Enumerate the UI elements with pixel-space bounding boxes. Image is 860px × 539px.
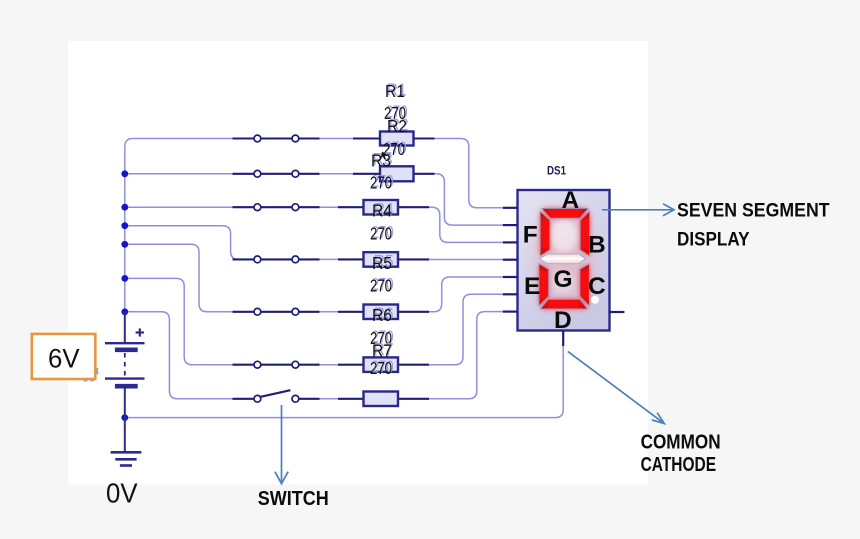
cursor mark (381, 152, 388, 160)
segment B lit (580, 211, 589, 256)
svg-text:270: 270 (370, 224, 392, 244)
segment A lit (542, 208, 588, 218)
display pin stub right (610, 311, 625, 313)
switch S6 (233, 361, 320, 368)
switch S2 (233, 170, 320, 177)
svg-text:C: C (588, 273, 606, 300)
label R2 (383, 114, 409, 159)
label R4 (370, 199, 394, 244)
resistor R1 (353, 132, 435, 146)
svg-text:F: F (523, 221, 538, 248)
label R5 (370, 251, 394, 295)
svg-text:6V: 6V (48, 344, 80, 374)
annotation SEVEN SEGMENT DISPLAY (677, 201, 830, 251)
wire row6 (192, 294, 503, 364)
wire row5 (207, 277, 503, 312)
svg-text:D: D (554, 307, 572, 334)
segment E lit (539, 264, 549, 306)
decimal point (591, 296, 600, 305)
junction dot row6 feed (121, 275, 128, 282)
arrow to common cathode (568, 351, 665, 423)
wire row4 (233, 258, 503, 260)
display DS1 box (518, 190, 610, 331)
svg-text:R1: R1 (385, 81, 405, 101)
wire bus vertical (125, 139, 133, 312)
svg-text:0V: 0V (106, 477, 138, 508)
segment C lit (580, 264, 589, 306)
wire row5 feed (125, 244, 207, 311)
wire row7 feed (125, 312, 178, 399)
resistor R7 (338, 392, 429, 407)
digit inner bloom lower (552, 270, 574, 294)
arrow to seven segment display (602, 204, 674, 216)
resistor R4 (338, 252, 429, 267)
ground (111, 452, 142, 465)
svg-text:CATHODE: CATHODE (641, 454, 717, 476)
svg-text:DISPLAY: DISPLAY (677, 229, 750, 250)
svg-text:SEVEN SEGMENT: SEVEN SEGMENT (677, 201, 830, 222)
junction dot row2 (121, 170, 128, 177)
resistor R3 (338, 200, 429, 215)
annotation COMMON CATHODE (641, 432, 721, 476)
svg-text:270: 270 (370, 358, 392, 378)
svg-text:B: B (588, 232, 606, 259)
label R6 (370, 303, 394, 348)
switch S7 open (233, 390, 320, 402)
wire common cathode return (125, 346, 563, 418)
switch S1 (233, 135, 320, 142)
junction dot row5 feed (121, 241, 128, 248)
wire row4 feed (125, 226, 239, 260)
resistor R2 (353, 166, 435, 181)
switch S4 (233, 256, 320, 263)
6V label box (32, 334, 96, 379)
battery label remnant (84, 368, 98, 380)
svg-text:DS1: DS1 (547, 166, 567, 178)
label R3 (370, 149, 394, 193)
wire row3 (125, 207, 503, 242)
switch S5 (233, 308, 320, 315)
wire row6 feed (125, 278, 192, 364)
svg-text:R5: R5 (372, 253, 392, 273)
svg-text:G: G (554, 266, 573, 293)
switch S3 (233, 204, 320, 211)
junction dot row4 feed (121, 222, 128, 229)
display pin stub bottom (562, 331, 564, 347)
resistor R6 (338, 357, 429, 372)
battery plus sign (136, 328, 144, 336)
display pin stubs left (503, 208, 518, 312)
svg-text:270: 270 (370, 173, 392, 193)
segment F lit (540, 211, 550, 256)
svg-text:SWITCH: SWITCH (258, 487, 329, 510)
svg-text:R6: R6 (372, 305, 392, 325)
junction dot battery top (121, 308, 128, 315)
junction dot row3 (121, 204, 128, 211)
resistor R5 (338, 305, 429, 320)
svg-text:A: A (562, 187, 580, 214)
label R1 (384, 79, 408, 123)
svg-text:270: 270 (370, 276, 392, 296)
wire row2 (125, 174, 503, 225)
battery V1 (105, 312, 145, 452)
label R7 (370, 339, 394, 378)
svg-text:R3: R3 (371, 151, 391, 171)
svg-text:R4: R4 (372, 201, 392, 221)
arrow to switch (275, 405, 288, 484)
seven segment digit glow (522, 197, 606, 321)
wire row7 (177, 312, 502, 399)
svg-text:COMMON: COMMON (641, 432, 721, 454)
segment G off (540, 254, 586, 264)
white schematic canvas (68, 41, 648, 485)
svg-text:R2: R2 (387, 116, 407, 136)
wire row1 (133, 139, 503, 208)
segment D lit (541, 299, 588, 309)
svg-text:E: E (524, 273, 540, 300)
digit inner bloom upper (551, 220, 577, 252)
junction dot common cathode (121, 414, 128, 421)
